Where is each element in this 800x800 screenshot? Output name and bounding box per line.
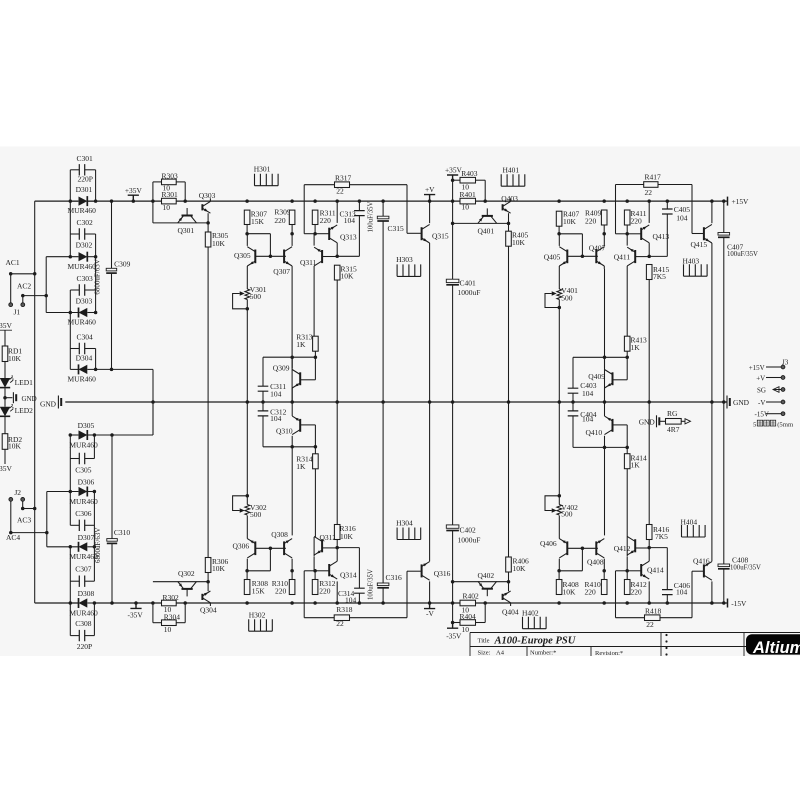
wire Q403 emitter to node	[508, 213, 510, 223]
svg-text:104: 104	[676, 588, 688, 597]
potentiometer V302	[245, 505, 250, 516]
wire R418 left-lead node link	[616, 570, 628, 572]
wire Q309 emitter to GND	[291, 388, 293, 402]
wire C301 left arm	[70, 169, 79, 171]
svg-text:22: 22	[336, 619, 344, 628]
wire Q411 collector to R413	[626, 266, 628, 336]
svg-text:C305: C305	[75, 465, 92, 474]
wire Q415 emitter to GND rail	[711, 243, 713, 402]
wire C401 bottom lead	[452, 285, 454, 402]
wire R318 right vertical (crosses rail)	[406, 571, 408, 618]
transistor Q406	[566, 541, 568, 555]
wire Q303 emitter to node	[207, 213, 209, 223]
wire C310 bottom lead	[111, 543, 113, 603]
wire node to C313 branch	[337, 255, 359, 257]
wire R404 right lead	[476, 622, 486, 624]
capacitor C312	[258, 411, 269, 416]
diode D308 MUR460	[79, 598, 88, 607]
wire Q409 base	[613, 379, 628, 381]
junction Q409 collector	[603, 356, 607, 360]
junction Q306/Q308 bases	[269, 547, 273, 551]
wire R417 left lead vertical (crosses rail)	[615, 185, 617, 234]
svg-text:-V: -V	[426, 609, 434, 618]
svg-text:104: 104	[270, 414, 282, 423]
junction Q313 collector node	[335, 255, 339, 259]
connector J1 pin 1	[9, 303, 13, 307]
wire Q313 collector	[336, 243, 338, 256]
wire Q405 emitter to V401	[558, 266, 560, 289]
diode D307 MUR460	[79, 542, 88, 551]
resistor RD1	[2, 346, 8, 362]
junction R412/Q414 base node	[625, 569, 629, 573]
wire R413 bottom lead	[626, 351, 628, 357]
svg-text:500: 500	[561, 294, 573, 303]
svg-text:+35V: +35V	[125, 186, 143, 195]
svg-text:Q404: Q404	[502, 608, 519, 617]
capacitor C311	[258, 386, 269, 391]
wire Q410 base	[613, 424, 628, 426]
junction R410 top	[602, 569, 606, 573]
wire GND rail to R316	[336, 402, 338, 525]
capacitor C301	[79, 164, 84, 175]
diode D305 MUR460	[79, 430, 88, 439]
junction Q406/Q408 bases	[581, 547, 585, 551]
diode D302 MUR460	[79, 252, 88, 261]
svg-text:MUR460: MUR460	[69, 497, 98, 506]
wire R318 left lead vertical (crosses rail)	[303, 571, 305, 618]
transistor Q402	[482, 588, 493, 590]
transistor Q312	[321, 539, 323, 552]
capacitor C305	[79, 453, 84, 464]
resistor R315	[334, 265, 340, 280]
wire C303 right arm	[85, 289, 96, 291]
header H403	[684, 264, 708, 276]
wire base riser bottom	[269, 548, 271, 571]
svg-text:Q407: Q407	[589, 244, 606, 253]
wire R311 bottom lead	[314, 225, 316, 234]
wire Q412 collector	[626, 543, 628, 556]
connector J2 pin 1	[9, 498, 13, 502]
svg-text:R418: R418	[645, 607, 662, 616]
capacitor C406	[662, 590, 673, 595]
svg-text:Q406: Q406	[540, 539, 557, 548]
junction R408/Q406 collector	[557, 569, 561, 573]
resistor R413	[624, 336, 630, 351]
junction Q405/Q407 bases	[581, 255, 585, 259]
wire C403 bottom lead	[572, 393, 574, 402]
wire C306 left arm	[70, 524, 79, 526]
wire bridge left column lower	[69, 290, 71, 369]
svg-text:Q307: Q307	[273, 267, 290, 276]
resistor R416	[646, 525, 652, 540]
wire Q416 emitter to GND rail	[711, 402, 713, 561]
junction LED midpoint	[3, 396, 7, 400]
svg-text:D301: D301	[76, 185, 93, 194]
svg-text:C306: C306	[75, 509, 92, 518]
wire R318 left lead	[304, 617, 334, 619]
wire Q310 base riser	[314, 425, 316, 447]
capacitor C315 100uF/35V	[377, 216, 389, 219]
wire D303 anode lead	[46, 312, 78, 314]
svg-text:Q415: Q415	[691, 240, 708, 249]
svg-text:R303: R303	[162, 171, 179, 180]
svg-text:104: 104	[345, 596, 357, 605]
svg-text:H304: H304	[396, 519, 413, 528]
transistor Q409	[612, 372, 614, 385]
resistor R403	[460, 177, 476, 183]
header H301	[255, 174, 279, 186]
resistor R412	[624, 580, 630, 595]
wire C314 top lead	[358, 548, 360, 589]
svg-text:R318: R318	[336, 605, 353, 614]
svg-text:220: 220	[585, 588, 597, 597]
svg-text:D303: D303	[76, 296, 93, 305]
wire Q411 base to node	[635, 256, 649, 258]
wire C405 bottom lead	[666, 215, 668, 257]
wire center tap vertical	[152, 369, 154, 435]
wire C311 loop top	[263, 356, 315, 358]
transistor Q302	[182, 588, 193, 590]
wire Q409 collector link	[604, 357, 606, 368]
wire R305 to R306 (crosses GND rail)	[207, 247, 209, 558]
wire Q407 collector	[603, 234, 605, 246]
svg-text:10: 10	[164, 605, 172, 614]
resistor R308	[244, 580, 250, 595]
svg-text:LED2: LED2	[15, 406, 34, 415]
capacitor C304	[79, 343, 84, 354]
svg-text:H301: H301	[254, 165, 271, 174]
wire Q306 collector	[246, 559, 248, 571]
transistor Q410	[612, 419, 614, 432]
diode D303 MUR460	[79, 308, 88, 317]
wire C315 bottom lead	[382, 221, 384, 402]
wire C404 top lead	[572, 402, 574, 411]
svg-text:C302: C302	[77, 218, 94, 227]
junction Q410 collector	[603, 446, 607, 450]
wire C406 bottom lead	[666, 595, 668, 603]
svg-text:1K: 1K	[296, 462, 306, 471]
wire R314 top lead	[314, 447, 316, 454]
wire R416 bottom lead	[648, 540, 650, 548]
junction R314 top	[314, 445, 318, 449]
svg-text:Q313: Q313	[340, 232, 357, 241]
connector J3 pin +15V	[766, 366, 781, 368]
junction Q305/Q307 bases	[269, 255, 273, 259]
wire Q411 emitter	[626, 234, 628, 246]
wire R418 left lead vertical (crosses rail)	[615, 571, 617, 618]
connector J3 pin -V	[766, 401, 781, 403]
svg-text:-15V: -15V	[731, 599, 747, 608]
power flag -V	[424, 603, 435, 609]
header H302	[249, 619, 273, 631]
resistor R417	[644, 182, 658, 188]
transistor Q307	[283, 250, 285, 264]
svg-text:10K: 10K	[512, 238, 526, 247]
svg-text:100uF/35V: 100uF/35V	[727, 251, 758, 258]
capacitor C408 100uF/35V	[718, 564, 730, 567]
transistor Q303	[201, 204, 203, 210]
svg-text:104: 104	[676, 214, 688, 223]
wire C308 right arm	[85, 635, 95, 637]
wire D308 cathode lead	[87, 602, 94, 604]
capacitor C403	[568, 388, 579, 393]
svg-text:Q409: Q409	[588, 372, 605, 381]
svg-text:C401: C401	[460, 279, 477, 288]
signal arrow SG	[773, 387, 779, 393]
wire Q312 collector	[313, 537, 315, 556]
wire Q402 base stub	[486, 589, 488, 597]
capacitor C303	[79, 284, 84, 295]
wire R316 bottom lead	[336, 540, 338, 548]
svg-text:220: 220	[585, 217, 597, 226]
svg-text:Q315: Q315	[432, 232, 449, 241]
svg-text:R417: R417	[645, 173, 662, 182]
wire D302 cathode lead	[87, 256, 95, 258]
title block border	[470, 633, 800, 657]
svg-text:GND: GND	[40, 400, 57, 409]
transistor Q415	[703, 227, 705, 240]
wire Q312 emitter	[313, 557, 315, 571]
wire Q415 base	[692, 233, 704, 235]
svg-text:Altium: Altium	[752, 639, 800, 657]
wire R414 to Q412 collector	[626, 469, 628, 543]
wire Q414 emitter to rail	[648, 581, 650, 603]
wire node to C406 branch	[649, 547, 667, 549]
junction R312/Q314 base node	[313, 569, 317, 573]
svg-text:Q314: Q314	[340, 571, 357, 580]
capacitor C307	[79, 576, 84, 587]
wire C309 bottom lead	[111, 273, 113, 369]
wire AC2 loop vertical	[45, 257, 47, 313]
junction R407/Q405 collector	[557, 232, 561, 236]
wire R303 loop left vertical	[152, 182, 154, 223]
resistor R405	[506, 231, 512, 246]
junction Q314 collector node	[335, 546, 339, 550]
svg-text:D304: D304	[76, 353, 93, 362]
junction V302 top	[246, 494, 250, 498]
wire Q301 base stub	[186, 208, 188, 216]
wire D307 anode lead	[47, 546, 79, 548]
svg-text:100uF/35V: 100uF/35V	[368, 569, 375, 600]
wire D304 anode lead	[70, 368, 78, 370]
wire R315 to GND rail	[336, 280, 338, 402]
wire Q406-Q408 base line	[567, 547, 598, 549]
svg-text:+V: +V	[425, 185, 435, 194]
wire C311 top lead	[262, 357, 264, 386]
junction Q303/Q301/R305 node	[206, 221, 210, 225]
power flag -15V	[727, 599, 729, 608]
wire Q402 top loop	[453, 581, 509, 583]
wire Q315 base	[407, 232, 422, 234]
wire C310 top lead	[111, 435, 113, 539]
capacitor C402 1000uF	[446, 525, 459, 528]
svg-text:MUR460: MUR460	[68, 375, 97, 384]
svg-text:C310: C310	[114, 528, 131, 537]
svg-text:10: 10	[163, 203, 171, 212]
svg-text:AC4: AC4	[6, 533, 20, 542]
wire Q316 base	[407, 570, 422, 572]
svg-text:R402: R402	[463, 592, 480, 601]
wire C404 bottom lead	[572, 416, 574, 448]
transistor Q403	[502, 204, 504, 210]
junction AC1 on bridge line	[33, 272, 37, 276]
svg-text:C304: C304	[77, 333, 94, 342]
wire C404 loop bottom	[573, 446, 627, 448]
wire C406 top lead	[666, 548, 668, 590]
wire Q308 collector	[291, 559, 293, 571]
capacitor C302	[79, 228, 84, 239]
wire AC4 to loop	[11, 532, 47, 534]
wire R317 right vertical (crosses rail)	[406, 185, 408, 234]
resistor R406	[506, 557, 512, 572]
wire C312 loop bottom	[263, 446, 315, 448]
svg-text:R301: R301	[162, 190, 179, 199]
svg-text:1K: 1K	[631, 461, 641, 470]
wire Q301 bottom loop	[153, 222, 208, 224]
svg-text:C315: C315	[388, 224, 405, 233]
svg-text:220P: 220P	[78, 175, 93, 184]
wire Q313 emitter to rail	[336, 201, 338, 223]
junction V301 bottom	[246, 307, 250, 311]
resistor R311	[312, 210, 318, 224]
svg-text:Q311: Q311	[300, 258, 317, 267]
wire Q307 emitter	[291, 266, 293, 269]
transistor Q313	[328, 228, 330, 240]
svg-text:6800uF/63V: 6800uF/63V	[94, 259, 102, 294]
junction center tap on GND rail	[151, 400, 155, 404]
svg-text:10K: 10K	[8, 354, 22, 363]
wire Q401 bottom loop	[453, 222, 509, 224]
wire R403 loop left vertical	[452, 180, 454, 223]
wire R415 to GND rail	[648, 280, 650, 403]
transistor Q405	[566, 250, 568, 264]
svg-text:-35V: -35V	[128, 610, 144, 619]
wire R314 to Q312 collector	[314, 469, 316, 537]
resistor R409	[601, 210, 607, 225]
svg-text:10K: 10K	[563, 588, 577, 597]
wire Q313 base	[315, 233, 329, 235]
wire Q305 emitter to V301	[246, 266, 248, 289]
resistor R411	[624, 210, 630, 225]
junction R309 bottom	[290, 232, 294, 236]
svg-text:AC1: AC1	[6, 258, 20, 267]
wire column to Q408 emitter	[604, 447, 606, 535]
wire C313 top lead	[358, 201, 360, 211]
svg-text:J2: J2	[14, 488, 21, 497]
wire Q305 collector	[246, 234, 248, 246]
wire R405 to GND rail	[508, 246, 510, 402]
header H304	[397, 528, 421, 540]
junction AC4 on loop	[45, 531, 49, 535]
resistor R305	[205, 232, 211, 247]
resistor R404	[460, 620, 476, 626]
wire base riser bottom right	[581, 548, 583, 571]
svg-text:RG: RG	[667, 409, 678, 418]
connector J1 pin 2	[21, 303, 25, 307]
wire Q406 emitter from V402	[558, 516, 560, 539]
power flag +35V right	[447, 175, 458, 180]
svg-text:1000uF: 1000uF	[458, 288, 481, 297]
wire R408 top lead	[558, 571, 560, 580]
capacitor C310 6800uF/63V	[107, 539, 118, 542]
svg-text:Q401: Q401	[478, 227, 495, 236]
wire AC4 loop vertical	[46, 492, 48, 547]
resistor RD2	[2, 434, 8, 450]
junction R308/Q306 collector	[245, 569, 249, 573]
transistor Q305	[254, 250, 256, 264]
wire mid GND rail	[65, 401, 727, 403]
svg-text:220: 220	[631, 217, 643, 226]
wire R304 right lead	[176, 622, 185, 624]
svg-text:15K: 15K	[251, 217, 265, 226]
ground flag at RG	[656, 415, 658, 427]
wire bridge-b left column lower	[69, 547, 71, 636]
svg-text:Q414: Q414	[647, 566, 664, 575]
svg-text:+V: +V	[756, 375, 765, 383]
wire Q305-Q307 base line	[255, 255, 286, 257]
svg-text:MUR460: MUR460	[69, 608, 98, 617]
svg-text:R317: R317	[335, 174, 352, 183]
svg-text:(5mm: (5mm	[777, 421, 794, 428]
wire R410 top lead	[603, 571, 605, 580]
Altium logo	[746, 634, 800, 654]
wire C309 top lead	[111, 201, 113, 268]
junction R311/Q313 base node	[313, 232, 317, 236]
svg-text:D305: D305	[78, 421, 95, 430]
svg-text:22: 22	[645, 188, 653, 197]
wire Q405 collector	[558, 234, 560, 246]
resistor R309	[289, 210, 295, 224]
resistor R303	[162, 179, 177, 185]
svg-text:Q308: Q308	[271, 530, 288, 539]
resistor R306	[205, 558, 211, 573]
wire Q413 base	[627, 233, 641, 235]
wire top rail left of D301	[35, 200, 78, 202]
wire Q413 collector	[648, 243, 650, 257]
junction Q404/Q402/R406 node	[507, 580, 511, 584]
wire V401 to GND rail	[558, 300, 560, 403]
capacitor C405	[662, 209, 673, 214]
svg-text:C309: C309	[114, 260, 131, 269]
schematic sheet background	[0, 147, 800, 657]
svg-text:Q301: Q301	[178, 226, 195, 235]
wire R308 to base riser	[247, 570, 270, 572]
svg-text:-35V: -35V	[0, 321, 12, 330]
wire D301 anode lead	[70, 200, 78, 202]
wire base riser	[269, 234, 271, 257]
svg-text:15K: 15K	[252, 587, 266, 596]
capacitor C404	[568, 411, 579, 416]
transistor Q314	[328, 564, 330, 576]
connector J2 pin 2	[21, 498, 25, 502]
wire Q410 collector link	[604, 436, 606, 448]
wire R307 to base riser	[247, 233, 270, 235]
svg-text:10K: 10K	[563, 217, 577, 226]
resistor R414	[624, 454, 630, 469]
svg-text:10K: 10K	[212, 564, 226, 573]
wire R403 right lead	[476, 179, 486, 181]
svg-text:Revision:*: Revision:*	[595, 650, 623, 657]
diode D304 MUR460	[79, 365, 88, 374]
wire C316 top lead	[382, 402, 384, 583]
wire R418 right lead	[660, 617, 692, 619]
svg-text:+15V: +15V	[732, 197, 750, 206]
capacitor C314	[354, 588, 365, 593]
wire R303 loop right vertical	[184, 182, 186, 201]
wire D303 cathode lead	[87, 312, 95, 314]
capacitor C306	[79, 520, 84, 531]
svg-text:H404: H404	[681, 518, 698, 527]
